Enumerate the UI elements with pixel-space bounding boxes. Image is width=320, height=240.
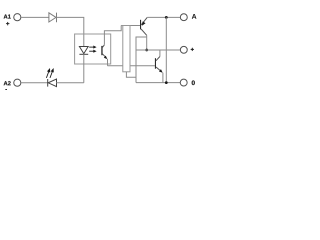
wire opto LED cathode down to A2 line (83, 54, 85, 83)
wire A2 to indicator LED (21, 82, 48, 84)
wire diode to corner, down to opto LED (57, 17, 84, 47)
optocoupler box (75, 34, 111, 64)
wire Q3 emitter down to bottom rail (162, 73, 164, 83)
wire phototransistor emitter down to base rail (107, 59, 109, 66)
wire resistor bottom lead (126, 72, 136, 77)
plus polarity mark at A1 (6, 22, 9, 25)
indicator LED (48, 79, 57, 87)
terminal A (180, 14, 187, 21)
resistor R1 (123, 26, 130, 72)
label plus (191, 48, 194, 51)
diode D1 (49, 13, 57, 23)
label A1 (4, 15, 11, 19)
wire top rail to terminal A (147, 16, 180, 18)
wire emitter rail to lower transistor base (108, 65, 155, 67)
wire from top rail junction down to bottom rail junction (165, 17, 167, 82)
indicator LED emission arrows (46, 68, 53, 78)
label A (192, 14, 197, 19)
wire bottom rail to terminal 0 (136, 82, 180, 84)
transistor Q2 (PNP upper) (140, 17, 147, 35)
wire A1 to diode (21, 16, 49, 18)
terminal A2 (14, 79, 21, 86)
junction dot on bottom rail (165, 81, 168, 84)
optocoupler LED (79, 47, 88, 55)
label A2 (4, 81, 11, 85)
junction dot on top rail (165, 16, 168, 19)
terminal 0 (180, 79, 187, 86)
label 0 (192, 80, 195, 85)
wire Q3 collector up to plus rail (159, 50, 161, 57)
wire plus rail (136, 49, 181, 51)
wire indicator LED to opto LED cathode drop (56, 82, 84, 84)
terminal A1 (14, 14, 21, 21)
wire Q2 collector down to plus rail junction (146, 35, 148, 50)
phototransistor Q1 (101, 45, 107, 59)
minus polarity mark at A2 (5, 88, 7, 91)
junction dot on plus rail (145, 49, 148, 52)
wire link line collector branch down to bottom rail (136, 37, 147, 83)
wire resistor top line (121, 25, 140, 27)
light emission arrows to phototransistor (89, 46, 96, 53)
wire phototransistor collector up and right to resistor top line (104, 26, 121, 45)
transistor Q3 (NPN lower) (155, 57, 163, 73)
terminal plus (180, 46, 187, 53)
